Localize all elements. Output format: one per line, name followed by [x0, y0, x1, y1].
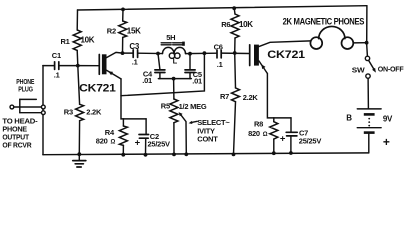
- wire: switch to battery: [367, 78, 369, 108]
- node: R6 top on rail: [232, 6, 236, 10]
- wire: feedback from Q1 emitter to tank right: [121, 53, 204, 95]
- node: wiper bottom on rail: [184, 152, 188, 156]
- svg-text:R2: R2: [107, 27, 116, 36]
- label SELECTIVITY CONT: [197, 118, 230, 144]
- svg-text:+: +: [135, 138, 141, 149]
- node: tank bus tap: [172, 77, 176, 81]
- svg-text:2.2K: 2.2K: [86, 108, 102, 117]
- label selectivity control pointer: [189, 121, 198, 124]
- svg-text:1/2 MEG: 1/2 MEG: [179, 102, 207, 111]
- svg-text:OF RCVR: OF RCVR: [2, 141, 32, 150]
- transistor Q1 CK721: [99, 52, 122, 79]
- node: Q1 collector junction: [121, 51, 125, 55]
- node: R8 bottom on rail: [272, 151, 276, 155]
- svg-text:25/25V: 25/25V: [148, 140, 171, 149]
- svg-text:9V: 9V: [383, 115, 393, 124]
- svg-text:.1: .1: [132, 58, 138, 67]
- svg-text:R1: R1: [61, 37, 70, 46]
- svg-text:820: 820: [96, 137, 108, 146]
- resistor R3: [76, 66, 84, 155]
- battery B 9V: [357, 109, 381, 153]
- svg-text:R5: R5: [161, 102, 170, 111]
- svg-text:Ω: Ω: [263, 132, 268, 138]
- svg-text:B: B: [346, 114, 352, 123]
- svg-text:10K: 10K: [81, 36, 95, 45]
- node: R7 bottom on rail: [232, 153, 236, 157]
- node: R4 bottom on rail: [121, 153, 125, 157]
- resistor R1: [73, 10, 81, 65]
- svg-text:SW: SW: [352, 66, 366, 75]
- svg-text:820: 820: [248, 129, 260, 138]
- svg-text:C1: C1: [52, 51, 61, 60]
- resistor R4: [119, 119, 127, 155]
- wire: base of Q1: [78, 65, 99, 67]
- svg-text:25/25V: 25/25V: [299, 137, 322, 146]
- node: phones right junction: [365, 41, 369, 45]
- wire: collector to C3: [123, 52, 134, 54]
- resistor R5 potentiometer: [170, 99, 178, 154]
- inductor L 5H: [161, 42, 185, 59]
- svg-text:Ω: Ω: [111, 139, 116, 145]
- svg-text:2K MAGNETIC PHONES: 2K MAGNETIC PHONES: [283, 17, 365, 27]
- svg-text:C3: C3: [129, 42, 139, 51]
- node: C7 bottom on rail: [289, 151, 293, 155]
- resistor R2: [119, 9, 127, 53]
- wire: phones node to switch: [366, 43, 369, 57]
- wire: tank to C6: [186, 52, 217, 54]
- svg-text:R3: R3: [64, 108, 73, 117]
- capacitor C4: [155, 54, 165, 79]
- svg-text:.1: .1: [54, 71, 60, 80]
- svg-text:.01: .01: [142, 76, 152, 85]
- capacitor C5: [185, 54, 195, 79]
- svg-text:PLUG: PLUG: [18, 85, 33, 94]
- wire: tank bottom bus: [158, 78, 191, 80]
- node: feedback top junction: [203, 51, 207, 55]
- wire: bottom ground rail: [43, 153, 369, 155]
- headphones: 2K magnetic phones: [310, 26, 366, 49]
- node: R2 top on rail: [121, 7, 125, 11]
- capacitor C7: [286, 118, 297, 153]
- svg-text:+: +: [280, 134, 286, 145]
- node: R3 bottom on ground rail: [77, 152, 81, 156]
- svg-text:5H: 5H: [166, 33, 175, 42]
- svg-text:C6: C6: [214, 43, 223, 52]
- node: C2 bottom on rail: [144, 153, 148, 157]
- wire: C3 to tank left node: [138, 52, 162, 54]
- wiper of R5: [179, 112, 187, 154]
- label TO HEADPHONE OUTPUT OF RCVR: [2, 117, 38, 150]
- capacitor C3: [133, 50, 137, 58]
- node: R5 bottom on rail: [172, 153, 176, 157]
- svg-text:R8: R8: [254, 120, 263, 129]
- svg-text:10K: 10K: [239, 20, 253, 29]
- svg-text:CK721: CK721: [79, 83, 116, 95]
- wire: right vertical rail to phones node: [366, 6, 368, 43]
- wire: Q2 emitter down and to C7: [267, 74, 291, 118]
- svg-text:R7: R7: [220, 92, 229, 101]
- wire: Q1 emitter down and to C2: [121, 79, 146, 119]
- svg-text:R6: R6: [221, 20, 230, 29]
- svg-text:CONT: CONT: [197, 135, 218, 144]
- capacitor C6: [217, 50, 221, 58]
- resistor R6: [231, 8, 239, 53]
- node: base divider junction: [76, 64, 80, 68]
- svg-text:2.2K: 2.2K: [243, 93, 259, 102]
- svg-text:15K: 15K: [127, 27, 141, 36]
- resistor R7: [232, 53, 240, 154]
- svg-text:+: +: [383, 135, 390, 149]
- node: Q2 base junction: [233, 51, 237, 55]
- switch SW on-off: [365, 56, 376, 78]
- wire: tap down to R5: [173, 79, 175, 99]
- node: tank C5 junction: [188, 52, 192, 56]
- phone plug J1: [10, 99, 45, 114]
- svg-text:.01: .01: [192, 76, 202, 85]
- wire: C6 to Q2 base: [222, 52, 250, 54]
- wire: top supply rail: [78, 6, 367, 10]
- capacitor C1: [43, 62, 78, 70]
- wire: input vertical from C1 to bottom rail: [42, 66, 44, 155]
- capacitor C2: [139, 119, 149, 155]
- transistor Q2 CK721: [250, 41, 311, 74]
- resistor R8: [270, 118, 278, 153]
- node: tank left junction: [156, 52, 160, 56]
- svg-text:.1: .1: [217, 60, 223, 69]
- svg-text:L: L: [173, 56, 178, 65]
- svg-text:CK721: CK721: [267, 49, 305, 61]
- ground: [73, 154, 86, 167]
- svg-text:ON-OFF: ON-OFF: [378, 65, 404, 74]
